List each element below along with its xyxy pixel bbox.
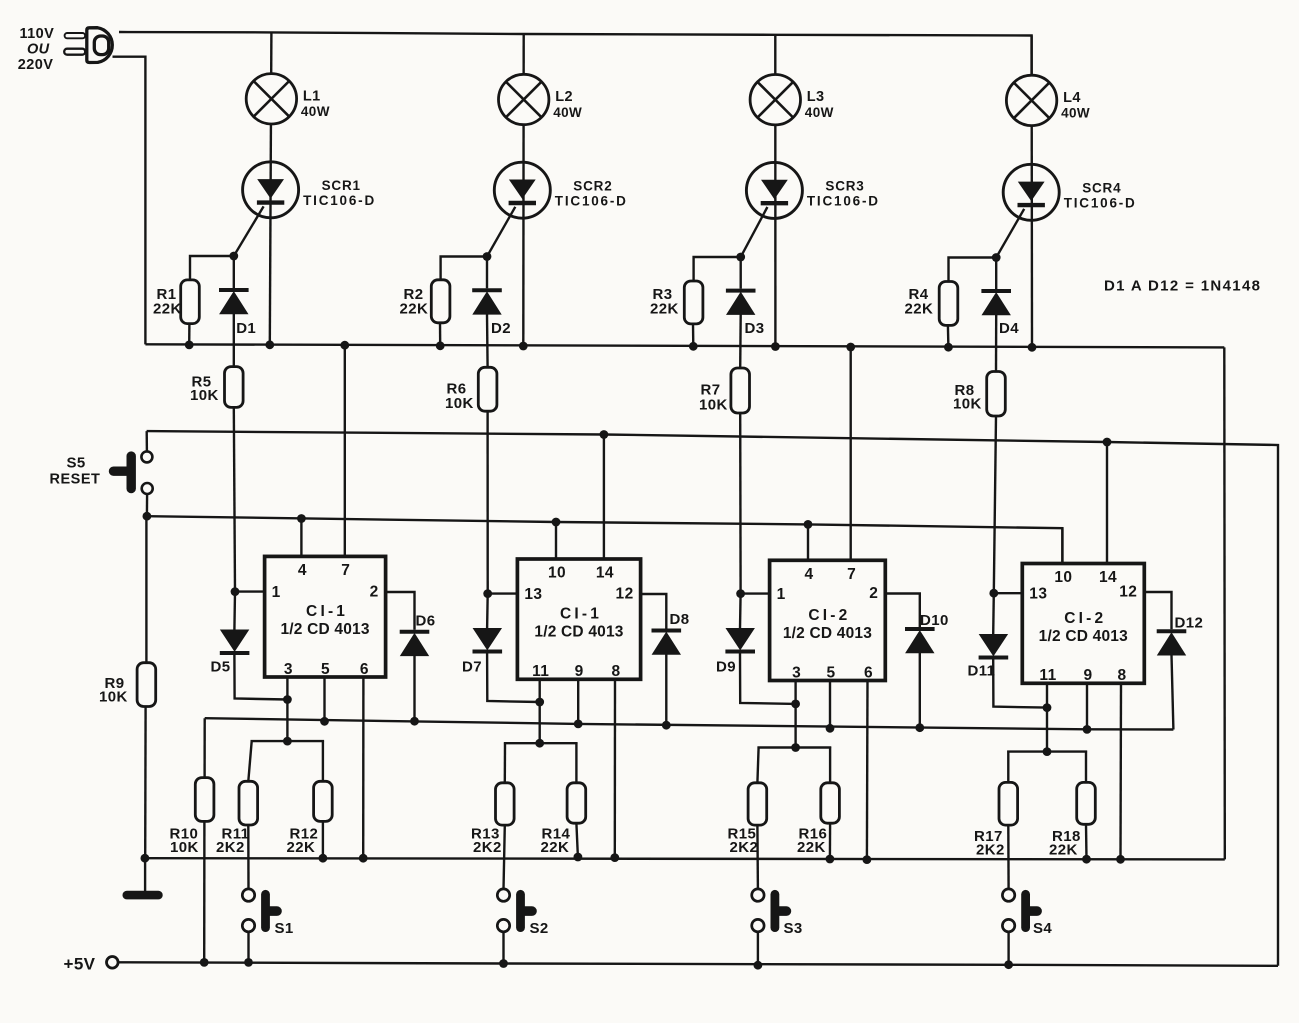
svg-text:11: 11 (1039, 667, 1056, 684)
svg-text:D1: D1 (236, 320, 256, 337)
wire lamp/SCR column stage 4 (1030, 36, 1033, 348)
resistor R2 22K (431, 280, 450, 323)
wire pin junction to D9 (739, 594, 742, 629)
node gate junction stage 4 (992, 253, 1001, 262)
svg-text:1/2 CD 4013: 1/2 CD 4013 (534, 624, 623, 641)
node neutral bus junction stage 3.2 (771, 342, 780, 351)
resistor R4 22K (939, 282, 958, 326)
node VDD line pin 14 junction stage 4 (1103, 438, 1112, 447)
thyristor SCR4 TIC106-D (1003, 164, 1059, 220)
wire bridge line stage 4 (1008, 750, 1086, 753)
wire S3 to +5V rail (757, 932, 759, 965)
svg-text:22K: 22K (287, 839, 316, 856)
wire R10 to +5V rail (203, 821, 206, 962)
switch S4 plunger (1026, 894, 1038, 927)
wire S1 to +5V rail (247, 932, 249, 963)
svg-text:S3: S3 (784, 920, 803, 937)
svg-text:D1 A D12 = 1N4148: D1 A D12 = 1N4148 (1104, 278, 1261, 295)
diode D12 1N4148 (1157, 631, 1187, 655)
svg-text:1/2 CD 4013: 1/2 CD 4013 (783, 625, 872, 642)
node D5 join pin 3 (283, 695, 292, 704)
node D11 join pin 11 (1043, 703, 1052, 712)
op-amp/flip-flop CI-1 box stage 2 (517, 559, 640, 679)
wire D2 anode down to R6 (486, 314, 489, 367)
diode D3 1N4148 (726, 291, 756, 315)
resistor R12 22K (314, 781, 333, 821)
wire bridge line stage 2 (505, 742, 576, 745)
wire bridge line stage 1 (252, 740, 323, 743)
svg-text:12: 12 (616, 586, 634, 603)
wire D7 cathode to pin 11 column (487, 654, 540, 703)
wire R2 to neutral bus (439, 323, 442, 346)
wire pin 11 column stage 2 (539, 679, 541, 743)
svg-text:2K2: 2K2 (216, 839, 245, 856)
wire junction to pin 1 stage 3 (741, 592, 770, 594)
svg-text:22K: 22K (153, 300, 182, 317)
wire pin 5 column stage 3 (829, 681, 831, 729)
wire pin 7 stub stage 1 (344, 345, 346, 556)
wire SCR3 gate (741, 207, 768, 257)
diode D6 1N4148 (400, 632, 430, 656)
wire gate junction to D1 (233, 256, 235, 288)
wire R13 to S2 (504, 825, 505, 889)
wire bridge to R12 (322, 741, 324, 781)
svg-text:1/2 CD 4013: 1/2 CD 4013 (280, 621, 369, 638)
node S5-clock junction (143, 512, 152, 521)
svg-text:8: 8 (1117, 667, 1126, 684)
node neutral bus junction stage 1.2 (265, 340, 274, 349)
switch S1 top contact (242, 889, 254, 901)
wire top AC bus from plug to lamps (119, 32, 1032, 74)
node +5V terminal (107, 957, 119, 969)
node 0V rail junction stage 3.1 (826, 855, 835, 864)
wire pin 2 to D10 (885, 594, 920, 628)
switch S3 top contact (752, 889, 764, 901)
svg-text:TIC106-D: TIC106-D (807, 194, 880, 209)
lamp L1 40W (246, 74, 296, 124)
diode D10 1N4148 (905, 629, 935, 653)
svg-text:10: 10 (1054, 569, 1072, 586)
svg-text:40W: 40W (301, 104, 330, 119)
wire bridge to R14 (575, 743, 577, 783)
svg-text:9: 9 (575, 663, 584, 680)
node D9 join pin 3 (791, 700, 800, 709)
wire S5 lower stub (146, 494, 149, 516)
node VDD line pin 14 junction stage 2 (600, 430, 609, 439)
wire pin junction to D7 (486, 594, 489, 629)
lamp L4 40W (1006, 75, 1056, 125)
ground (127, 891, 159, 900)
diode D7 1N4148 (473, 629, 503, 652)
svg-text:TIC106-D: TIC106-D (555, 193, 628, 208)
wire S5 upper stub (145, 431, 148, 451)
svg-text:2: 2 (370, 584, 379, 601)
svg-text:CI-1: CI-1 (560, 606, 602, 623)
thyristor SCR2 TIC106-D (494, 162, 550, 218)
svg-text:D6: D6 (416, 613, 436, 630)
svg-text:+5V: +5V (64, 955, 96, 974)
wire R11 to S1 (247, 825, 250, 890)
diode D2 1N4148 (472, 290, 502, 314)
switch S1 bottom contact (242, 919, 254, 931)
node pin 11 bridge junction stage 4 (1043, 747, 1052, 756)
svg-text:220V: 220V (18, 57, 53, 73)
svg-text:10K: 10K (953, 396, 982, 413)
diode D11 1N4148 (979, 635, 1009, 658)
diode D1 1N4148 (219, 290, 249, 314)
switch S2 bottom contact (497, 919, 509, 931)
node 0V rail junction stage 4.2 (1116, 855, 1125, 864)
svg-text:11: 11 (532, 663, 549, 680)
svg-text:L1: L1 (303, 88, 321, 104)
switch S3 plunger (775, 894, 787, 927)
svg-text:L4: L4 (1063, 90, 1081, 106)
wire bridge to R17 (1007, 752, 1009, 783)
node neutral bus junction stage 4.2 (1028, 343, 1037, 352)
wire D3 anode down to R7 (739, 314, 742, 368)
wire pin 8 column stage 4 (1119, 683, 1122, 859)
svg-text:D3: D3 (745, 320, 765, 337)
node clock line pin 4 junction stage 1 (297, 514, 306, 523)
wire D6 anode to feedback line (413, 656, 415, 722)
wire D9 cathode to pin 3 column (740, 654, 796, 704)
svg-text:40W: 40W (1061, 106, 1090, 121)
wire R8 to IC pin 13 (994, 416, 996, 593)
wire gate junction to R3 stage 3 (694, 257, 741, 281)
node D10 feedback junction (915, 723, 924, 732)
wire pin 6 column stage 3 (866, 681, 869, 860)
wire pin 14 stub stage 4 (1106, 442, 1108, 564)
node pin 9 feedback junction stage 4 (1083, 725, 1092, 734)
svg-text:10: 10 (548, 565, 566, 582)
svg-text:6: 6 (864, 664, 873, 681)
op-amp/flip-flop CI-1 box stage 1 (265, 556, 386, 677)
wire neutral bus right drop (1223, 347, 1226, 859)
wire pin 3 column stage 3 (794, 681, 796, 748)
wire left drop S5 to R9 (145, 516, 147, 663)
wire bridge to R13 (504, 743, 507, 783)
resistor R16 22K (821, 783, 840, 823)
diode D8 1N4148 (652, 631, 682, 655)
node D8 feedback junction (662, 721, 671, 730)
wire R15 to S3 (756, 825, 759, 889)
node gate junction stage 3 (736, 253, 745, 262)
switch S5 plunger (114, 456, 132, 489)
wire R1 to neutral bus (188, 324, 191, 345)
svg-text:9: 9 (1083, 667, 1092, 684)
svg-text:22K: 22K (797, 839, 826, 856)
node 0V rail junction stage 2.2 (610, 853, 619, 862)
wire R6 to IC pin 13 (486, 411, 489, 593)
wire R18 to 0V rail (1085, 824, 1088, 859)
svg-text:110V: 110V (20, 26, 55, 42)
svg-text:3: 3 (792, 664, 801, 681)
node pin 1 junction stage 3 (736, 589, 745, 598)
node D7 join pin 11 (535, 698, 544, 707)
svg-text:2K2: 2K2 (730, 839, 759, 856)
svg-text:10K: 10K (190, 387, 219, 404)
wire R4 to neutral bus (947, 325, 950, 347)
wire R12 to 0V rail (322, 821, 324, 858)
wire gate junction to R2 stage 2 (441, 257, 487, 280)
wire pin 14 stub stage 2 (603, 435, 605, 560)
wire R16 to 0V rail (829, 823, 832, 859)
switch S1 plunger (266, 894, 278, 927)
svg-text:10K: 10K (99, 689, 128, 706)
svg-text:40W: 40W (553, 105, 582, 120)
wire R5 to IC pin 1 (234, 407, 235, 591)
resistor R17 2K2 (999, 782, 1018, 825)
node pin 13 junction stage 4 (989, 589, 998, 598)
thyristor SCR1 TIC106-D (243, 162, 299, 218)
node pin 13 junction stage 2 (483, 589, 492, 598)
wire S2 to +5V rail (502, 932, 504, 964)
wire pin 9 column stage 2 (577, 679, 579, 724)
svg-text:L3: L3 (807, 89, 825, 105)
wire neutral bus horizontal (145, 344, 1224, 347)
switch S3 bottom contact (752, 919, 764, 931)
wire D5 cathode to pin 3 column (234, 655, 287, 700)
svg-text:D10: D10 (920, 612, 949, 629)
svg-text:22K: 22K (400, 300, 429, 317)
wire R14 to 0V rail (576, 823, 578, 857)
svg-text:CI-1: CI-1 (306, 603, 348, 620)
wire pin 3 column stage 1 (286, 677, 288, 741)
op-amp/flip-flop CI-2 box stage 3 (770, 560, 886, 680)
node neutral bus junction stage 2.2 (519, 342, 528, 351)
wire bridge to R18 (1085, 752, 1087, 783)
wire pin junction to D5 (233, 592, 236, 630)
node neutral bus junction stage 1.3 (340, 341, 349, 350)
wire pin 5 column stage 1 (323, 677, 325, 721)
thyristor SCR3 TIC106-D (746, 162, 802, 218)
wire 0V rail (145, 858, 1225, 859)
resistor R3 22K (684, 281, 703, 324)
svg-text:7: 7 (847, 566, 856, 583)
svg-text:SCR1: SCR1 (322, 178, 361, 193)
svg-text:1: 1 (272, 584, 281, 601)
svg-text:1/2 CD 4013: 1/2 CD 4013 (1039, 628, 1128, 645)
svg-text:2K2: 2K2 (976, 842, 1005, 859)
wire clock/reset line from S5 bottom (147, 516, 1063, 563)
svg-text:SCR4: SCR4 (1082, 181, 1121, 196)
wire gate junction to R4 stage 4 (949, 258, 997, 282)
svg-text:D8: D8 (670, 611, 690, 628)
wire pin 9 column stage 4 (1086, 683, 1088, 729)
wire rail to ground (144, 858, 146, 891)
node pin 5 feedback junction stage 1 (320, 717, 329, 726)
wire SCR1 gate (234, 206, 264, 256)
svg-text:SCR3: SCR3 (825, 179, 864, 194)
svg-text:SCR2: SCR2 (573, 178, 612, 193)
wire D10 anode to feedback line (919, 653, 921, 728)
resistor R11 2K2 (239, 781, 258, 825)
svg-text:D7: D7 (462, 659, 482, 676)
wire SCR4 gate (996, 209, 1024, 258)
wire gate junction to D4 (995, 258, 997, 290)
svg-text:5: 5 (826, 664, 835, 681)
svg-text:D11: D11 (968, 663, 996, 680)
svg-text:10K: 10K (170, 839, 199, 856)
wire D4 anode down to R8 (995, 315, 998, 372)
node neutral bus junction stage 3.1 (689, 342, 698, 351)
svg-text:D5: D5 (211, 659, 231, 676)
svg-text:S4: S4 (1033, 920, 1052, 937)
wire pin 12 to D8 (641, 594, 667, 629)
wire pin 10 stub stage 4 (1061, 528, 1063, 563)
node pin 3 bridge junction stage 3 (791, 743, 800, 752)
svg-text:12: 12 (1119, 584, 1137, 601)
node pin 11 bridge junction stage 2 (535, 739, 544, 748)
svg-text:S5: S5 (67, 455, 86, 472)
wire bridge to R16 (829, 748, 831, 783)
node S3 +5V junction (754, 961, 763, 970)
wire feedback diode line (205, 718, 1174, 729)
node D6 feedback junction (410, 717, 419, 726)
svg-text:40W: 40W (805, 105, 834, 120)
wire pin 7 stub stage 3 (850, 347, 852, 560)
node gate junction stage 2 (483, 252, 492, 261)
svg-text:13: 13 (1029, 586, 1047, 603)
op-amp/flip-flop CI-2 box stage 4 (1022, 564, 1144, 684)
wire lamp/SCR column stage 1 (270, 32, 272, 344)
svg-text:D12: D12 (1175, 615, 1204, 632)
svg-text:22K: 22K (905, 300, 934, 317)
node pin 3 bridge junction stage 1 (283, 737, 292, 746)
node pin 1 junction stage 1 (231, 587, 240, 596)
wire feedback corner to R10 (203, 718, 205, 777)
svg-text:RESET: RESET (50, 472, 101, 488)
wire lamp/SCR column stage 2 (522, 34, 525, 346)
node S2 +5V junction (499, 959, 508, 968)
wire bridge to R15 (757, 748, 758, 783)
svg-text:TIC106-D: TIC106-D (1064, 195, 1137, 210)
wire bridge line stage 3 (759, 746, 831, 749)
svg-text:5: 5 (321, 661, 330, 678)
node gate junction stage 1 (229, 252, 238, 261)
switch S5 top contact (141, 451, 152, 462)
wire plug neutral to left drop (113, 57, 146, 345)
wire junction to pin 13 stage 4 (994, 592, 1023, 594)
svg-text:S2: S2 (530, 920, 549, 937)
wire junction to pin 1 stage 1 (235, 590, 265, 592)
svg-text:D9: D9 (716, 659, 736, 676)
svg-text:TIC106-D: TIC106-D (303, 193, 376, 208)
wire R17 to S4 (1007, 825, 1010, 889)
node neutral bus junction stage 1.1 (185, 341, 194, 350)
svg-text:22K: 22K (541, 839, 570, 856)
wire gate junction to R1 stage 1 (190, 256, 234, 280)
wire lamp/SCR column stage 3 (774, 35, 777, 347)
resistor R10 10K (195, 778, 214, 822)
node 0V rail junction stage 1.1 (319, 854, 328, 863)
resistor R8 10K (987, 372, 1006, 417)
node S1 +5V junction (244, 958, 253, 967)
wire gate junction to D2 (486, 257, 488, 289)
svg-text:OU: OU (27, 41, 50, 57)
svg-text:3: 3 (284, 661, 293, 678)
wire gate junction to D3 (740, 257, 742, 289)
lamp L2 40W (499, 74, 549, 124)
wire VDD line from S5 top across (147, 431, 1278, 966)
node clock line pin 4 junction stage 3 (804, 520, 813, 529)
resistor R6 10K (478, 367, 497, 411)
wire pin 11 column stage 4 (1046, 683, 1048, 751)
node S4 +5V junction (1004, 960, 1013, 969)
wire pin junction to D11 (992, 593, 995, 634)
lamp L3 40W (750, 75, 800, 125)
node R9 rail junction (141, 854, 150, 863)
wire pin 6 column stage 1 (362, 677, 365, 858)
resistor R7 10K (731, 368, 750, 413)
svg-text:D4: D4 (999, 320, 1019, 337)
svg-text:10K: 10K (445, 395, 474, 412)
switch S4 bottom contact (1002, 919, 1014, 931)
node 0V rail junction stage 3.2 (863, 855, 872, 864)
wire +5V rail (118, 962, 1278, 966)
wire pin 8 column stage 2 (614, 679, 617, 857)
node neutral bus junction stage 3.3 (846, 343, 855, 352)
wire pin 10 stub stage 2 (555, 522, 557, 559)
svg-text:CI-2: CI-2 (1064, 610, 1106, 627)
resistor R18 22K (1077, 782, 1096, 824)
svg-text:8: 8 (611, 663, 620, 680)
svg-text:1: 1 (777, 586, 786, 603)
diode D4 1N4148 (981, 291, 1011, 315)
svg-text:D2: D2 (491, 320, 511, 337)
wire D8 anode to feedback line (665, 654, 667, 725)
svg-text:L2: L2 (555, 89, 573, 105)
resistor R13 2K2 (496, 783, 515, 825)
svg-text:10K: 10K (699, 397, 728, 414)
resistor R15 2K2 (748, 783, 767, 825)
wire R3 to neutral bus (692, 324, 695, 346)
svg-text:CI-2: CI-2 (808, 607, 850, 624)
node pin 9 feedback junction stage 2 (574, 720, 583, 729)
resistor R9 (137, 663, 156, 707)
svg-text:22K: 22K (650, 300, 679, 317)
wire D1 anode down to R5 (233, 314, 235, 367)
wire R9 to 0V rail (144, 707, 147, 859)
node neutral bus junction stage 4.1 (944, 343, 953, 352)
wire pin 4 stub stage 1 (300, 519, 302, 557)
node neutral bus junction stage 2.1 (436, 341, 445, 350)
switch S5 bottom contact (142, 483, 153, 494)
plug P1 110V/220V (64, 28, 112, 63)
wire pin 4 stub stage 3 (807, 524, 809, 560)
svg-text:22K: 22K (1049, 842, 1078, 859)
svg-text:4: 4 (804, 566, 813, 583)
wire pin 2 to D6 (386, 592, 415, 630)
node 0V rail junction stage 2.1 (574, 853, 583, 862)
wire junction to pin 13 stage 2 (488, 592, 518, 594)
resistor R1 22K (181, 280, 200, 324)
resistor R14 22K (567, 783, 586, 823)
switch S4 top contact (1002, 889, 1014, 901)
wire R7 to IC pin 1 (739, 413, 742, 594)
svg-text:4: 4 (298, 562, 307, 579)
wire bridge to R11 (248, 741, 251, 781)
node 0V rail junction stage 1.2 (359, 854, 368, 863)
switch S2 top contact (497, 889, 509, 901)
switch S2 plunger (521, 894, 533, 927)
svg-text:13: 13 (524, 586, 542, 603)
svg-text:7: 7 (341, 562, 350, 579)
wire S4 to +5V rail (1007, 932, 1009, 965)
node clock line pin 10 junction stage 2 (552, 518, 561, 527)
node R10 +5V junction (200, 958, 209, 967)
diode D5 1N4148 (220, 630, 250, 653)
